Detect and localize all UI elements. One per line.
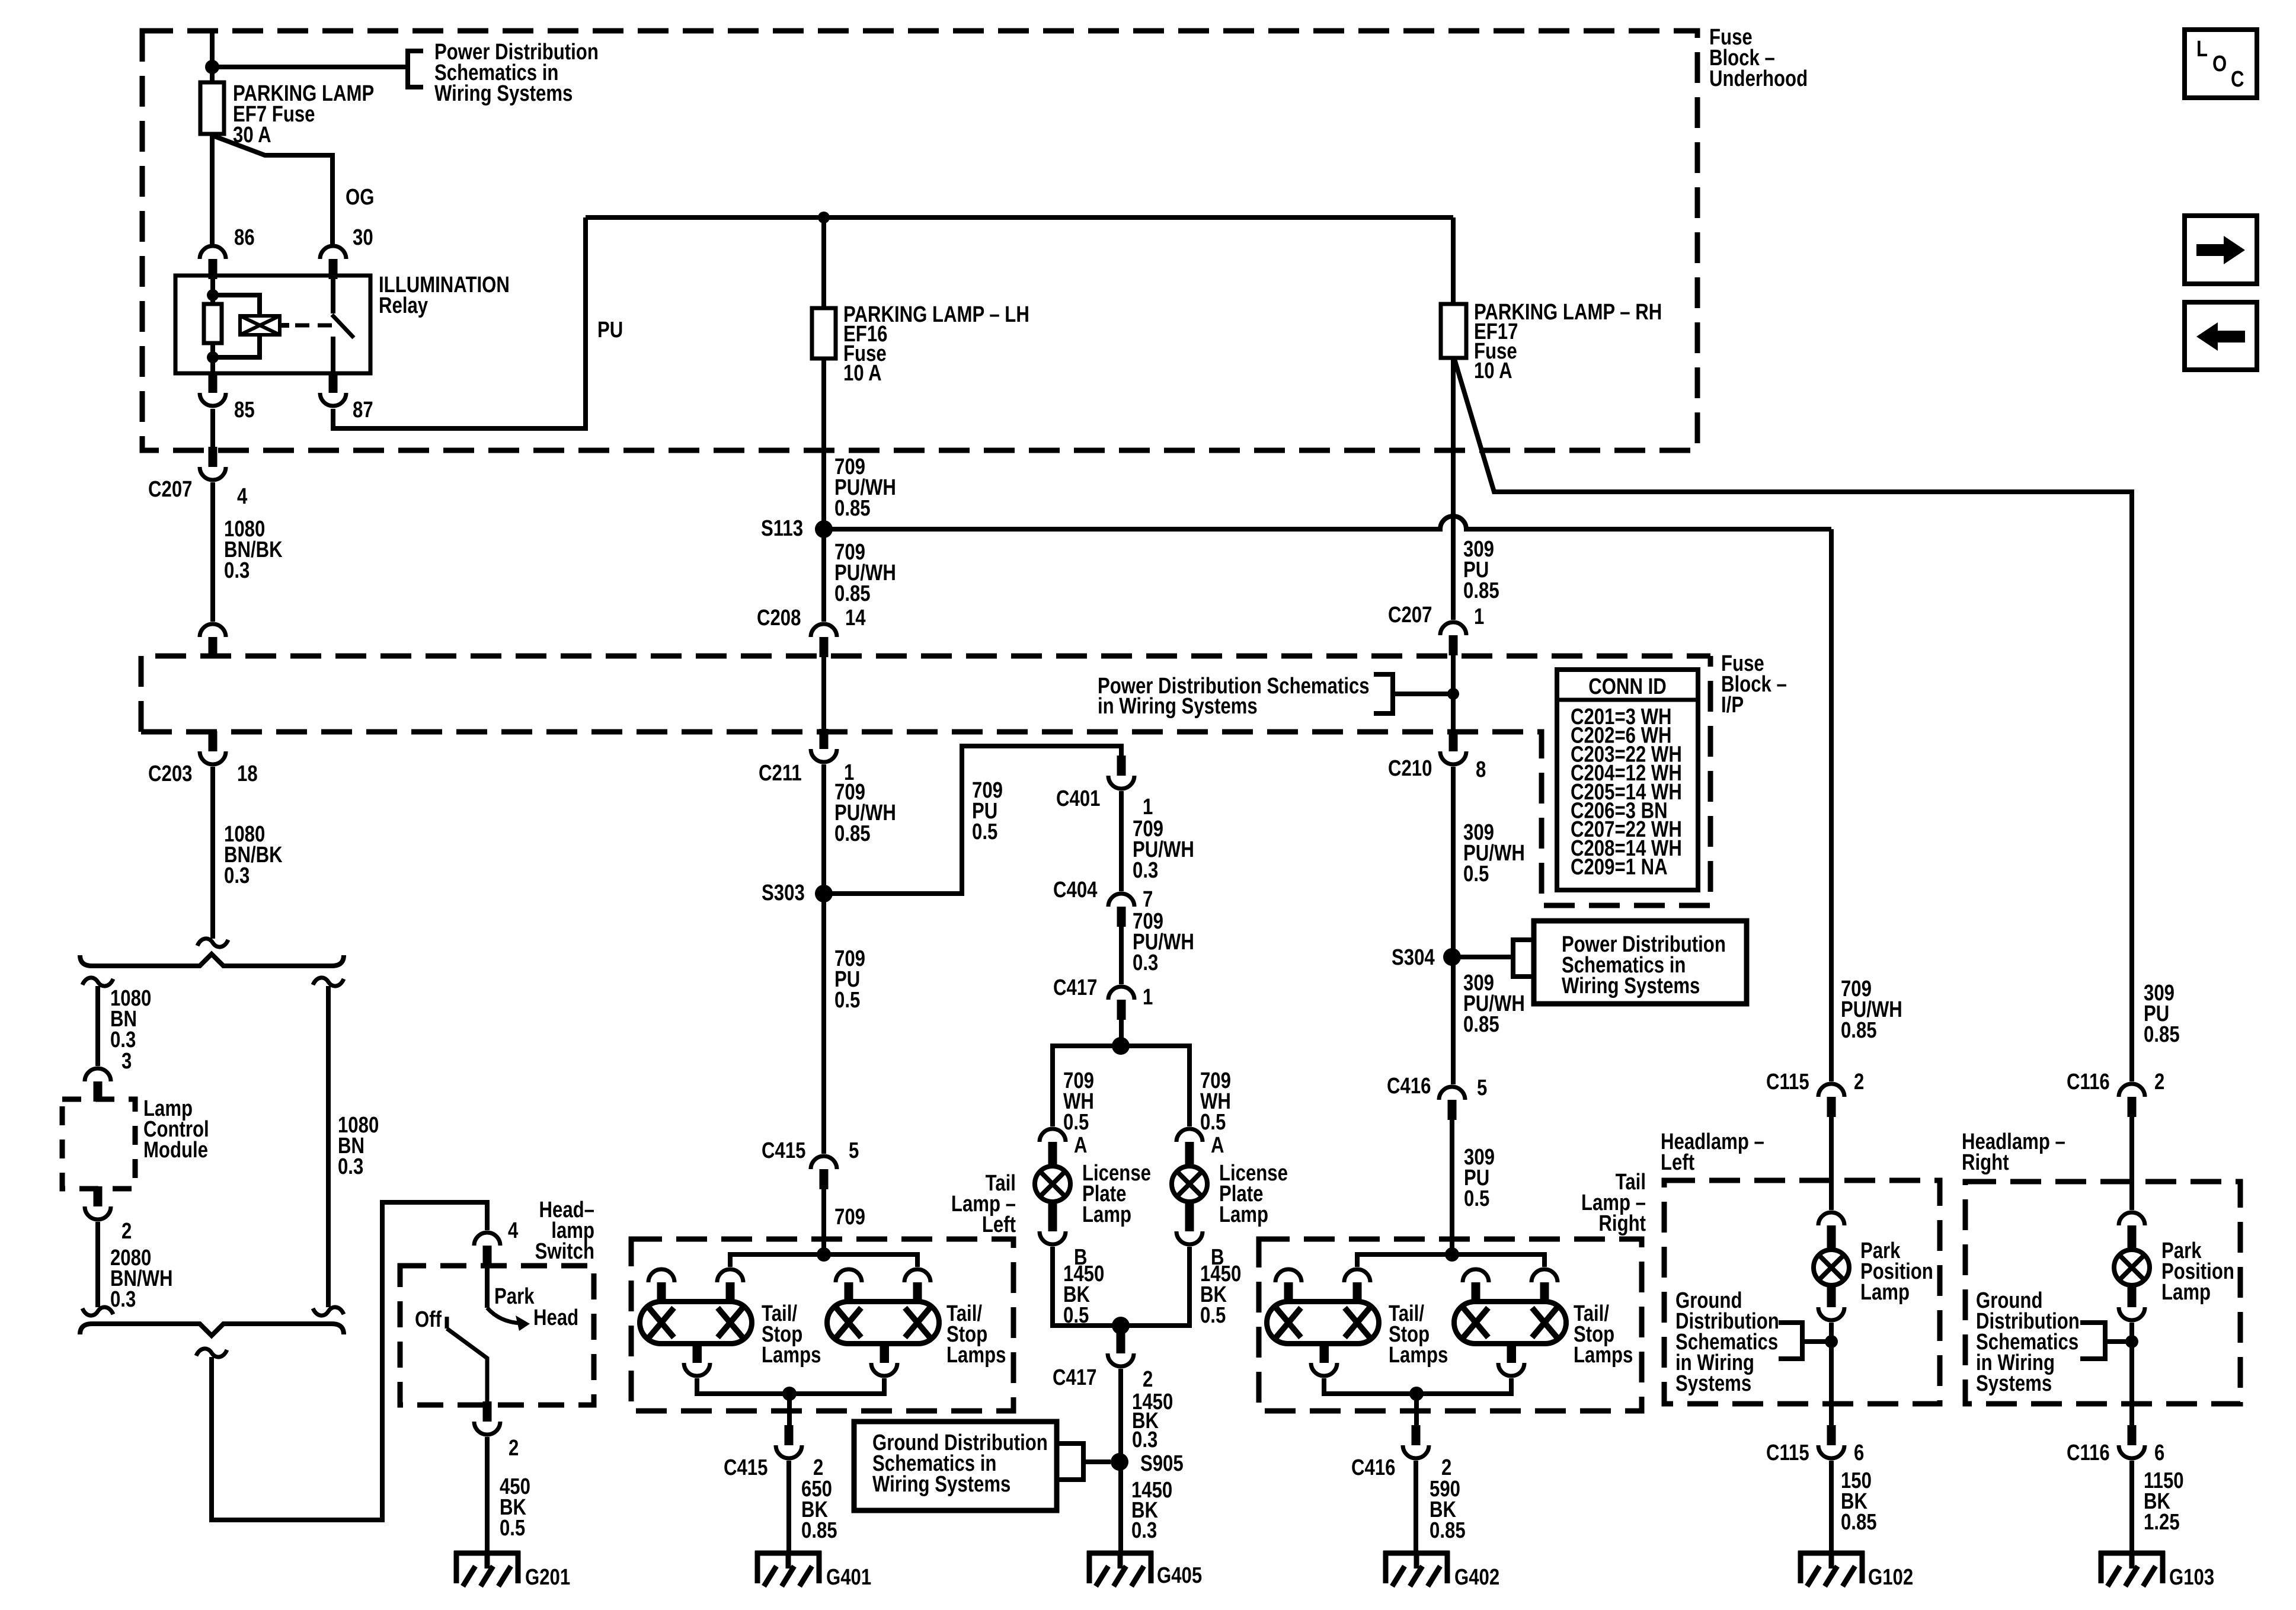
ground G405 — [1087, 1551, 1153, 1586]
connector C417 pin 1 — [1108, 987, 1134, 1020]
fuse EF16 PARKING LAMP LH 10A — [812, 308, 836, 359]
bracket power distribution reference — [408, 51, 423, 87]
connector license lamp left pin A — [1040, 1129, 1066, 1162]
svg-text:C203: C203 — [148, 761, 192, 786]
headlamp switch dashed box — [400, 1266, 594, 1405]
fuse EF7 PARKING LAMP 30A — [200, 82, 224, 134]
svg-text:A: A — [1074, 1133, 1088, 1158]
fuse EF17 PARKING LAMP RH 10A — [1441, 304, 1466, 358]
svg-text:2: 2 — [509, 1436, 519, 1461]
tail stop lamp left A — [640, 1282, 752, 1363]
svg-text:0.5: 0.5 — [1463, 862, 1489, 886]
wire coil to actuator — [280, 323, 289, 328]
wire coil top link — [213, 295, 260, 316]
svg-text:G401: G401 — [826, 1565, 871, 1590]
wire C417 to license lamp junction — [1119, 1020, 1124, 1046]
wire C211 to S303 — [821, 764, 826, 894]
wire relay switch output — [331, 337, 335, 373]
wire to power distribution reference — [212, 65, 408, 69]
svg-text:709: 709 — [834, 1205, 865, 1230]
svg-text:Lamps: Lamps — [762, 1343, 821, 1368]
wire relay coil branch top — [210, 273, 215, 304]
relay actuator dashed link — [295, 324, 332, 328]
svg-text:0.85: 0.85 — [1841, 1018, 1877, 1043]
wire C115-6 to G102 — [1829, 1461, 1834, 1553]
svg-text:1.25: 1.25 — [2144, 1510, 2180, 1535]
connector tail stop left outer arc 1 — [648, 1269, 674, 1282]
wire to power distribution bracket — [1393, 692, 1453, 696]
connector relay pin 86 — [200, 246, 226, 279]
connector C203 pin 18 — [200, 731, 226, 764]
svg-text:PU: PU — [597, 318, 623, 343]
node relay coil top — [207, 289, 219, 301]
wire relay 85 to C207 — [210, 409, 215, 448]
node park lamp right ground junction — [2125, 1335, 2138, 1348]
connector license lamp right pin A — [1176, 1129, 1203, 1162]
lamp license plate right — [1185, 1157, 1194, 1169]
svg-text:0.85: 0.85 — [1430, 1518, 1466, 1543]
wire tail stop left bus — [730, 1254, 917, 1267]
relay box ILLUMINATION — [175, 276, 370, 373]
node tail stop right junction — [1445, 1247, 1459, 1262]
connector C210 pin 8 — [1440, 731, 1466, 764]
wire 1080 BN/BK — [210, 482, 215, 622]
wire C416 into tail stop right — [1450, 1120, 1454, 1254]
svg-text:3: 3 — [121, 1049, 132, 1074]
svg-text:87: 87 — [353, 398, 373, 422]
svg-text:Wiring Systems: Wiring Systems — [434, 81, 573, 106]
connector tail stop left B ground pin — [871, 1343, 897, 1376]
connector C208 pin 14 — [811, 624, 837, 657]
tail stop lamps right dashed box — [1259, 1239, 1642, 1411]
svg-text:1: 1 — [1474, 604, 1484, 629]
svg-text:C209=1 NA: C209=1 NA — [1571, 855, 1668, 880]
node park lamp left ground junction — [1825, 1335, 1838, 1348]
power distribution schematics box S304 — [1534, 921, 1747, 1004]
svg-text:18: 18 — [237, 761, 258, 786]
wire C415 into tail stop lamps — [821, 1189, 826, 1254]
ground distribution schematics box — [854, 1422, 1057, 1510]
wire relay coil branch bottom — [210, 343, 215, 373]
connector tail stop right arc 4 — [1531, 1269, 1558, 1282]
svg-text:Lamp: Lamp — [1082, 1202, 1131, 1227]
connector C415 pin 5 — [811, 1156, 837, 1189]
svg-text:C211: C211 — [759, 761, 802, 786]
connector C401 pin 1 — [1108, 756, 1134, 789]
wire break hook below brace — [196, 1349, 227, 1357]
connector C115 pin 6 — [1818, 1425, 1844, 1458]
svg-text:C116: C116 — [2067, 1441, 2110, 1465]
bracket ground distribution right headlamp — [2080, 1323, 2105, 1359]
svg-text:0.3: 0.3 — [1131, 1518, 1157, 1543]
svg-text:0.3: 0.3 — [110, 1287, 136, 1312]
brace bottom lamp control module — [80, 1324, 344, 1336]
connector park lamp right bottom — [2119, 1287, 2145, 1320]
lamp license plate left — [1048, 1157, 1057, 1169]
wire license right to junction — [1121, 1247, 1189, 1326]
wire license left to junction — [1053, 1247, 1121, 1326]
node license lamp junction — [1112, 1037, 1130, 1055]
switch park-head arc — [487, 1308, 520, 1323]
wire junction to C415-2 — [787, 1394, 792, 1426]
svg-text:Right: Right — [1962, 1150, 2009, 1175]
tail stop lamps left dashed box — [631, 1239, 1013, 1411]
svg-text:Off: Off — [415, 1307, 442, 1332]
node relay coil bottom — [207, 351, 219, 363]
connector license lamp right pin B — [1176, 1211, 1203, 1244]
bracket ground distribution left headlamp — [1779, 1323, 1802, 1359]
connector headlamp switch pin 2 — [474, 1401, 500, 1435]
svg-text:7: 7 — [1143, 887, 1153, 912]
connector C415 pin 2 — [776, 1425, 802, 1458]
svg-text:Lamps: Lamps — [1389, 1343, 1448, 1368]
headlamp left dashed box — [1664, 1180, 1940, 1404]
svg-text:S905: S905 — [1140, 1451, 1184, 1476]
bracket S905 reference — [1059, 1443, 1083, 1480]
svg-text:10 A: 10 A — [843, 361, 882, 386]
node S905 — [1111, 1453, 1128, 1471]
svg-text:Relay: Relay — [379, 293, 428, 318]
connector C207 pin 1 — [1440, 622, 1466, 655]
svg-text:0.85: 0.85 — [801, 1518, 837, 1543]
svg-text:S304: S304 — [1392, 945, 1435, 970]
svg-text:C: C — [2231, 67, 2244, 92]
wire C116 to park lamp — [2129, 1117, 2134, 1210]
svg-text:86: 86 — [234, 225, 255, 250]
svg-text:1: 1 — [1143, 985, 1153, 1010]
connector tail stop right arc 2 — [1344, 1269, 1370, 1282]
wire OG from EF7 to relay pin 30 — [215, 136, 332, 244]
wire C210 to C416 — [1451, 767, 1456, 1084]
tail stop lamp left B — [827, 1282, 939, 1363]
node S113 — [815, 520, 833, 538]
svg-text:Switch: Switch — [535, 1239, 594, 1264]
wire tail stop left grounds to junction — [697, 1378, 884, 1394]
svg-text:0.5: 0.5 — [1063, 1110, 1089, 1135]
svg-text:G402: G402 — [1454, 1565, 1499, 1590]
wire to headlamp switch loop — [212, 1202, 487, 1520]
svg-text:Lamp: Lamp — [1219, 1202, 1268, 1227]
svg-text:0.3: 0.3 — [338, 1154, 363, 1179]
svg-text:C207: C207 — [1388, 603, 1432, 628]
ground G103 — [2099, 1551, 2165, 1586]
svg-text:S303: S303 — [762, 881, 805, 905]
svg-text:5: 5 — [1477, 1076, 1487, 1100]
svg-text:2: 2 — [1854, 1070, 1864, 1094]
svg-text:C404: C404 — [1053, 878, 1098, 902]
svg-text:0.3: 0.3 — [224, 558, 250, 583]
relay switch blade — [332, 315, 354, 338]
conn id header separator — [1557, 698, 1698, 702]
wire break hook left branch — [82, 978, 113, 986]
wire C115 to park lamp — [1829, 1117, 1834, 1210]
wire 1080 BN/BK lower — [210, 767, 215, 939]
svg-text:14: 14 — [845, 606, 866, 630]
svg-text:0.85: 0.85 — [834, 821, 871, 846]
svg-text:6: 6 — [1854, 1441, 1864, 1465]
svg-text:4: 4 — [508, 1218, 519, 1243]
wire junction to C416-2 — [1414, 1394, 1419, 1426]
connector tail stop left outer arc 3 — [836, 1269, 862, 1282]
svg-text:2: 2 — [2154, 1070, 2164, 1094]
connector tail stop left A ground pin — [684, 1343, 710, 1376]
svg-text:C416: C416 — [1387, 1074, 1431, 1099]
svg-text:0.3: 0.3 — [224, 863, 250, 888]
connector C116 pin 6 — [2119, 1425, 2145, 1458]
svg-text:0.85: 0.85 — [1463, 578, 1499, 603]
connector tail stop left arc 2 — [717, 1269, 743, 1282]
svg-text:C115: C115 — [1766, 1441, 1809, 1465]
svg-text:0.85: 0.85 — [834, 581, 871, 606]
svg-text:0.5: 0.5 — [972, 820, 997, 844]
wire S304 to bracket — [1453, 955, 1513, 959]
wire top fuse bus — [586, 215, 1453, 220]
node S304 — [1443, 948, 1461, 966]
wire S303 down to C415 — [821, 894, 826, 1154]
svg-text:G201: G201 — [525, 1565, 570, 1590]
svg-text:C116: C116 — [2067, 1070, 2110, 1094]
lamp park position left — [1827, 1242, 1836, 1252]
headlamp right dashed box — [1965, 1182, 2240, 1404]
svg-text:0.3: 0.3 — [1133, 858, 1158, 883]
svg-text:Wiring Systems: Wiring Systems — [1562, 974, 1700, 998]
svg-text:G405: G405 — [1157, 1563, 1202, 1588]
svg-text:G103: G103 — [2169, 1565, 2214, 1590]
node EF16 feed junction — [818, 212, 830, 223]
connector license lamp left pin B — [1040, 1211, 1066, 1244]
svg-text:C208: C208 — [757, 606, 801, 630]
svg-text:Lamp: Lamp — [2161, 1280, 2211, 1305]
svg-text:0.5: 0.5 — [1200, 1110, 1226, 1135]
wire park lamp right to ground junction — [2129, 1323, 2134, 1427]
wire C416-2 to G402 — [1414, 1461, 1418, 1553]
svg-text:2: 2 — [1143, 1367, 1153, 1392]
svg-text:85: 85 — [234, 398, 255, 422]
svg-text:0.85: 0.85 — [1841, 1510, 1877, 1535]
arrow right legend box — [2185, 216, 2257, 284]
svg-text:30: 30 — [353, 225, 373, 250]
connector C417 pin 2 — [1108, 1333, 1134, 1366]
svg-text:Right: Right — [1598, 1211, 1646, 1236]
resistor relay internal — [204, 304, 222, 343]
connector relay pin 87 — [320, 373, 346, 406]
connector park lamp left top — [1818, 1212, 1844, 1246]
wire S113 to C208 — [821, 529, 826, 622]
node tail stop right ground junction — [1409, 1387, 1424, 1401]
wire C208 to C211 inside IP block — [821, 657, 826, 737]
wire break hook above brace — [197, 939, 228, 947]
connector C416 pin 2 — [1403, 1425, 1429, 1458]
connector C404 pin 7 — [1108, 894, 1134, 927]
svg-text:C210: C210 — [1388, 756, 1432, 781]
switch blade off position — [447, 1329, 487, 1402]
connector park lamp left bottom — [1818, 1287, 1844, 1320]
wire C116-6 to G103 — [2129, 1461, 2134, 1553]
svg-text:Left: Left — [982, 1212, 1016, 1237]
conn id table box — [1557, 670, 1698, 890]
wire tail stop right bus — [1357, 1254, 1544, 1267]
wire to G201 — [485, 1437, 490, 1553]
svg-text:4: 4 — [237, 484, 248, 509]
connector tail stop right B ground pin — [1498, 1343, 1524, 1376]
connector C211 pin 1 — [811, 729, 837, 762]
svg-text:0.3: 0.3 — [1133, 950, 1158, 975]
wire C404 to C417 — [1119, 927, 1124, 984]
wire right branch 1080 BN — [313, 978, 344, 986]
connector tail stop right A ground pin — [1311, 1343, 1337, 1376]
svg-text:Systems: Systems — [1675, 1371, 1751, 1396]
svg-text:Systems: Systems — [1976, 1371, 2052, 1396]
arrow left symbol — [2196, 322, 2245, 351]
node battery feed junction — [205, 60, 219, 74]
svg-text:S113: S113 — [761, 516, 803, 541]
node S303 — [815, 885, 833, 902]
wire top bus to EF16 — [821, 217, 826, 308]
connector C116 pin 2 — [2119, 1084, 2145, 1117]
wire license junction to C417-2 — [1118, 1326, 1123, 1334]
wire C417-2 to G405 — [1118, 1369, 1123, 1553]
connector C416 pin 5 — [1439, 1087, 1465, 1120]
ground G402 — [1383, 1551, 1450, 1586]
svg-text:Lamps: Lamps — [1574, 1343, 1633, 1368]
svg-text:O: O — [2212, 52, 2227, 76]
svg-text:Park: Park — [494, 1284, 535, 1309]
node license ground junction — [1112, 1317, 1130, 1334]
wire coil bottom link — [213, 335, 260, 357]
svg-text:2: 2 — [121, 1219, 132, 1244]
svg-text:I/P: I/P — [1721, 693, 1744, 718]
wire left branch lower — [95, 1222, 100, 1307]
node tail stop left junction — [817, 1247, 831, 1262]
svg-text:8: 8 — [1476, 757, 1486, 782]
arrow left legend box — [2185, 302, 2257, 370]
wire top bus to EF17 — [1451, 217, 1456, 304]
svg-text:C115: C115 — [1766, 1070, 1809, 1094]
svg-text:Wiring Systems: Wiring Systems — [872, 1472, 1011, 1497]
svg-text:L: L — [2196, 37, 2208, 62]
svg-text:Head: Head — [533, 1305, 578, 1330]
svg-text:C415: C415 — [724, 1455, 768, 1480]
svg-text:0.85: 0.85 — [2144, 1022, 2180, 1047]
wire C207 into IP block — [1451, 655, 1456, 739]
connector C115 pin 2 — [1818, 1084, 1844, 1117]
svg-text:Underhood: Underhood — [1709, 66, 1808, 91]
lamp park position right — [2128, 1242, 2137, 1252]
svg-text:Module: Module — [143, 1138, 208, 1163]
connector headlamp switch pin 4 — [474, 1233, 500, 1266]
tail stop lamp right A — [1267, 1282, 1379, 1363]
wire EF7 to relay pin 86 — [210, 134, 215, 244]
wire C415-2 to G401 — [786, 1461, 791, 1553]
svg-text:in Wiring Systems: in Wiring Systems — [1098, 694, 1258, 719]
node IP power junction — [1447, 688, 1459, 700]
connector lamp control module pin 3 — [85, 1068, 111, 1102]
svg-text:0.85: 0.85 — [1463, 1012, 1499, 1037]
svg-text:5: 5 — [849, 1138, 859, 1163]
svg-text:10 A: 10 A — [1474, 359, 1512, 383]
svg-text:C416: C416 — [1351, 1455, 1395, 1480]
fuse block underhood dashed outline — [142, 31, 1697, 450]
bracket S304 reference — [1513, 940, 1536, 977]
wire S303 branch to C401 — [824, 746, 1121, 894]
svg-text:OG: OG — [346, 185, 374, 210]
svg-text:G102: G102 — [1868, 1565, 1913, 1590]
node tail stop left ground junction — [782, 1387, 797, 1401]
svg-text:C207: C207 — [148, 477, 192, 502]
wire C401 to C404 — [1119, 791, 1124, 891]
bracket power distribution IP — [1374, 674, 1393, 713]
wire relay switch common — [331, 276, 335, 313]
connector relay pin 85 — [200, 373, 226, 406]
wire tail stop right grounds to junction — [1324, 1378, 1511, 1394]
lamp control module dashed box — [62, 1099, 135, 1189]
switch off tick — [445, 1317, 449, 1329]
connector into IP fuse block — [200, 624, 226, 657]
wire left branch 1080 BN — [95, 986, 100, 1066]
wire park lamp left to ground junction — [1829, 1323, 1834, 1427]
svg-text:0.5: 0.5 — [1464, 1186, 1489, 1211]
wire PU relay 87 to fuse bus — [333, 217, 586, 428]
svg-text:6: 6 — [2154, 1441, 2164, 1465]
wire EF17 down to C207 — [1451, 358, 1456, 620]
wire license lamp bus — [1053, 1046, 1189, 1126]
LOC legend box — [2185, 30, 2257, 98]
svg-text:Lamp: Lamp — [1860, 1280, 1910, 1305]
ground G102 — [1798, 1551, 1865, 1586]
svg-text:C417: C417 — [1053, 975, 1097, 1000]
wire battery feed into fuse block — [210, 33, 215, 82]
relay coil symbol — [240, 316, 280, 335]
connector relay pin 30 — [320, 246, 346, 279]
wire S113 branch to C115 — [1829, 529, 1834, 1081]
connector tail stop right outer arc 1 — [1275, 1269, 1302, 1282]
brace top lamp control module — [80, 954, 344, 966]
connector lamp control module pin 2 — [85, 1186, 111, 1219]
connector C207 pin 4 — [200, 447, 226, 480]
svg-text:1: 1 — [1143, 795, 1153, 820]
svg-text:CONN ID: CONN ID — [1588, 674, 1667, 699]
svg-text:C415: C415 — [762, 1138, 805, 1163]
connector tail stop left arc 4 — [904, 1269, 930, 1282]
wire break hook left branch lower — [82, 1307, 113, 1315]
svg-text:0.5: 0.5 — [834, 988, 860, 1013]
connector tail stop right outer arc 3 — [1463, 1269, 1489, 1282]
ground G201 — [454, 1551, 520, 1586]
fuse block IP dashed outline — [141, 656, 1710, 905]
svg-text:A: A — [1211, 1133, 1224, 1158]
svg-text:Left: Left — [1661, 1150, 1694, 1175]
svg-text:C401: C401 — [1056, 786, 1100, 811]
ground G401 — [755, 1551, 821, 1586]
wire switch pole — [485, 1266, 490, 1308]
connector park lamp right top — [2119, 1212, 2145, 1246]
svg-text:C417: C417 — [1053, 1365, 1096, 1390]
wire S113 to left headlamp with hop — [824, 516, 1831, 529]
wire EF16 to S113 — [821, 359, 826, 529]
wire EF17 diagonal to right headlamp — [1454, 359, 2132, 1081]
tail stop lamp right B — [1454, 1282, 1566, 1363]
svg-text:0.85: 0.85 — [834, 496, 871, 521]
svg-text:0.3: 0.3 — [1132, 1427, 1157, 1452]
arrow right symbol — [2196, 236, 2245, 264]
svg-text:Lamps: Lamps — [946, 1343, 1006, 1368]
svg-text:0.5: 0.5 — [500, 1516, 525, 1541]
svg-text:0.5: 0.5 — [1200, 1303, 1226, 1328]
